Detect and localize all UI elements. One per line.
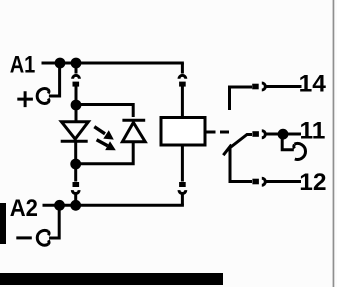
pin connector socket arc (top, LED branch) xyxy=(73,75,80,78)
svg-text:11: 11 xyxy=(300,118,326,145)
wire pivot down to terminal 12 branch xyxy=(230,148,252,182)
node A2 junction dot 1 xyxy=(54,200,65,211)
node A1 junction dot 2 xyxy=(71,58,82,69)
pin connector pin square (bottom, LED branch) xyxy=(73,182,80,187)
scan artifact: right edge gray line xyxy=(333,0,335,287)
scan artifact: bottom black bar xyxy=(0,273,223,285)
wire LED to bottom node xyxy=(74,141,77,160)
LED D1 triangle xyxy=(61,122,88,139)
pin connector pin square (14) xyxy=(252,84,259,90)
pin connector pin square (11) xyxy=(252,131,259,137)
wire to terminal 12 xyxy=(265,180,301,183)
pin connector socket arc (11) xyxy=(262,131,266,138)
LED D1 cathode bar xyxy=(61,140,88,143)
pin connector pin square (12) xyxy=(252,179,259,185)
wire A1 horizontal xyxy=(42,62,184,65)
pin connector socket arc (bottom, LED branch) xyxy=(72,190,79,193)
diode D2 cathode bar xyxy=(122,119,145,122)
wire node 11 to terminal label xyxy=(288,133,301,136)
wire A2 horizontal xyxy=(43,204,184,207)
wire A1 corner down to coil pin xyxy=(181,63,184,74)
node LED bottom junction dot xyxy=(70,159,81,170)
wire A1 down to plus clamp xyxy=(49,63,60,96)
node A1 junction dot 1 xyxy=(55,58,66,69)
pin connector socket arc (top, coil branch) xyxy=(179,75,186,78)
node A1 label xyxy=(10,52,36,79)
wire LED bottom node to pin xyxy=(74,164,77,182)
pin connector pin square (bottom, coil branch) xyxy=(179,182,186,187)
dashed actuation link xyxy=(207,131,230,134)
wire pin down to coil xyxy=(181,87,184,118)
relay coil K1 xyxy=(161,118,205,146)
LED emission arrow 1 xyxy=(94,127,114,140)
pin connector socket arc (bottom, coil branch) xyxy=(179,190,186,193)
diode D2 triangle xyxy=(122,123,145,142)
svg-text:12: 12 xyxy=(299,169,326,196)
switch resting tick xyxy=(223,145,231,156)
terminal 14 label xyxy=(299,71,327,98)
switch arm (movable contact) xyxy=(230,135,252,148)
node 11 junction dot xyxy=(278,129,289,140)
pin connector pin square (top, LED branch) xyxy=(73,82,80,87)
wire diode down to parallel bottom xyxy=(76,142,133,164)
wire coil bottom to pin xyxy=(181,145,184,182)
scan artifact: left black bar xyxy=(0,203,6,244)
wire node 11 down to clamp xyxy=(282,139,294,150)
wire LED node down to LED xyxy=(75,105,78,121)
wire to node 11 xyxy=(265,133,279,136)
wire terminal 14 branch xyxy=(230,87,253,110)
wire A2 down to minus clamp xyxy=(49,205,59,238)
pin connector pin square (top, coil branch) xyxy=(179,82,186,87)
pin connector socket arc (14) xyxy=(262,83,266,90)
svg-text:A2: A2 xyxy=(10,195,38,222)
wire coil pin down to A2 line xyxy=(181,194,184,206)
wire to terminal 14 xyxy=(265,85,302,88)
clamp terminal A1 xyxy=(37,89,48,104)
plus sign xyxy=(17,91,33,107)
terminal 12 label xyxy=(299,169,326,196)
wire A1 dot2 down to pin xyxy=(75,68,78,74)
wire parallel top (to diode branch) xyxy=(76,105,133,118)
node A2 label xyxy=(10,195,38,222)
LED emission arrow 2 xyxy=(97,140,116,151)
clamp terminal A2 xyxy=(37,230,48,245)
svg-text:A1: A1 xyxy=(10,52,36,79)
minus sign xyxy=(16,236,32,239)
wire pin to A2 dot xyxy=(74,194,77,203)
wire pin to LED node xyxy=(75,87,78,101)
pin connector socket arc (12) xyxy=(262,178,266,185)
terminal 11 label xyxy=(300,118,326,145)
node A2 junction dot 2 xyxy=(70,200,81,211)
node LED top junction dot xyxy=(71,100,82,111)
svg-text:14: 14 xyxy=(299,71,327,98)
clamp terminal 11 xyxy=(294,143,305,159)
